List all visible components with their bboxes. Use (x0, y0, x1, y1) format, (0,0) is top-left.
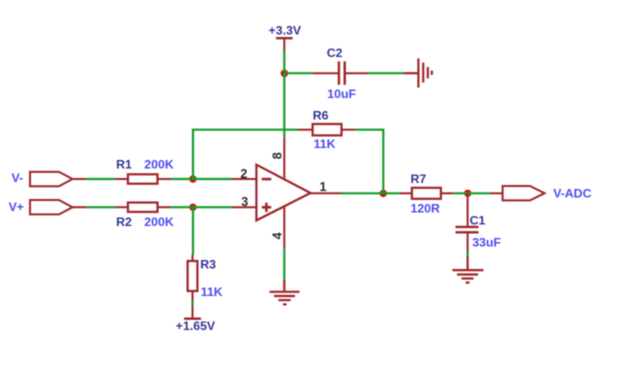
wire R2 to junction and to pin 3 (171, 206, 232, 208)
wire V- to R1 (87, 178, 116, 180)
wire R3 to +1.65V (191, 302, 193, 306)
port V-ADC (490, 186, 592, 200)
wire R6 to right column (355, 129, 383, 131)
svg-text:3: 3 (241, 195, 248, 209)
wire pin 1 to output junction (341, 192, 400, 194)
svg-text:C2: C2 (327, 46, 343, 60)
wire power stem (283, 51, 285, 74)
capacitor C1 (456, 193, 502, 252)
svg-text:R7: R7 (411, 172, 427, 186)
resistor R1 (115, 158, 173, 184)
wire pin 4 to ground (283, 248, 285, 279)
op-amp pin 4 lead (283, 200, 285, 248)
junction dot C (non-inverting input node) (189, 204, 196, 211)
svg-text:120R: 120R (411, 202, 441, 216)
junction dot A (+3.3V node) (281, 70, 289, 78)
svg-text:R3: R3 (200, 257, 216, 271)
wire feedback right vertical (382, 129, 384, 194)
resistor R6 (298, 108, 355, 150)
power +1.65V (176, 306, 216, 334)
junction dot D (output node) (380, 190, 387, 197)
op-amp pin 3 lead (232, 206, 258, 208)
svg-text:2: 2 (240, 167, 247, 181)
wire V+ to R2 (87, 206, 116, 208)
svg-text:8: 8 (270, 152, 284, 159)
wire junction C down to R3 (192, 207, 194, 255)
svg-text:R2: R2 (116, 215, 132, 229)
port V+ (9, 200, 87, 214)
svg-text:V-ADC: V-ADC (553, 186, 591, 200)
power +3.3V (189, 24, 471, 211)
wire feedback top horizontal (192, 129, 298, 131)
wire C2 to ground (368, 72, 403, 74)
svg-text:R6: R6 (313, 108, 329, 122)
wire feedback left vertical (192, 130, 194, 179)
op-amp plus mark (262, 203, 271, 212)
svg-text:C1: C1 (470, 213, 486, 227)
op-amp U1 triangle (256, 165, 310, 221)
wire C1 to ground (467, 252, 469, 257)
svg-text:11K: 11K (201, 285, 223, 299)
svg-text:V-: V- (12, 171, 24, 185)
op-amp minus mark (262, 178, 271, 181)
port V- (12, 171, 87, 186)
junction dot B (inverting input node) (189, 175, 196, 182)
svg-text:+1.65V: +1.65V (176, 319, 216, 333)
ground (right of C2, rotated earth) (404, 58, 432, 87)
op-amp pin 1 lead (311, 192, 341, 194)
wire power column down to pin 8 (283, 73, 285, 137)
op-amp pin 2 lead (232, 178, 258, 180)
wire R1 to junction and to pin 2 (171, 178, 232, 180)
svg-text:4: 4 (270, 232, 284, 239)
resistor R3 (188, 255, 223, 302)
svg-text:R1: R1 (116, 158, 132, 172)
svg-text:V+: V+ (9, 200, 24, 214)
ground (below op-amp) (270, 279, 300, 304)
capacitor C2 (313, 46, 368, 101)
ground (below C1) (452, 257, 483, 283)
resistor R2 (115, 203, 173, 230)
svg-text:33uF: 33uF (472, 235, 501, 249)
svg-text:1: 1 (320, 180, 327, 194)
svg-text:+3.3V: +3.3V (269, 24, 302, 38)
junction dot E (V-ADC node) (464, 190, 471, 197)
resistor R7 (399, 172, 453, 216)
wire junction to C2 (284, 72, 313, 74)
svg-text:11K: 11K (314, 137, 336, 151)
op-amp pin 8 lead (283, 137, 285, 180)
svg-text:10uF: 10uF (327, 87, 356, 101)
svg-text:200K: 200K (144, 158, 174, 172)
svg-text:200K: 200K (144, 215, 174, 229)
wire R7 to C1 junction (453, 192, 490, 194)
